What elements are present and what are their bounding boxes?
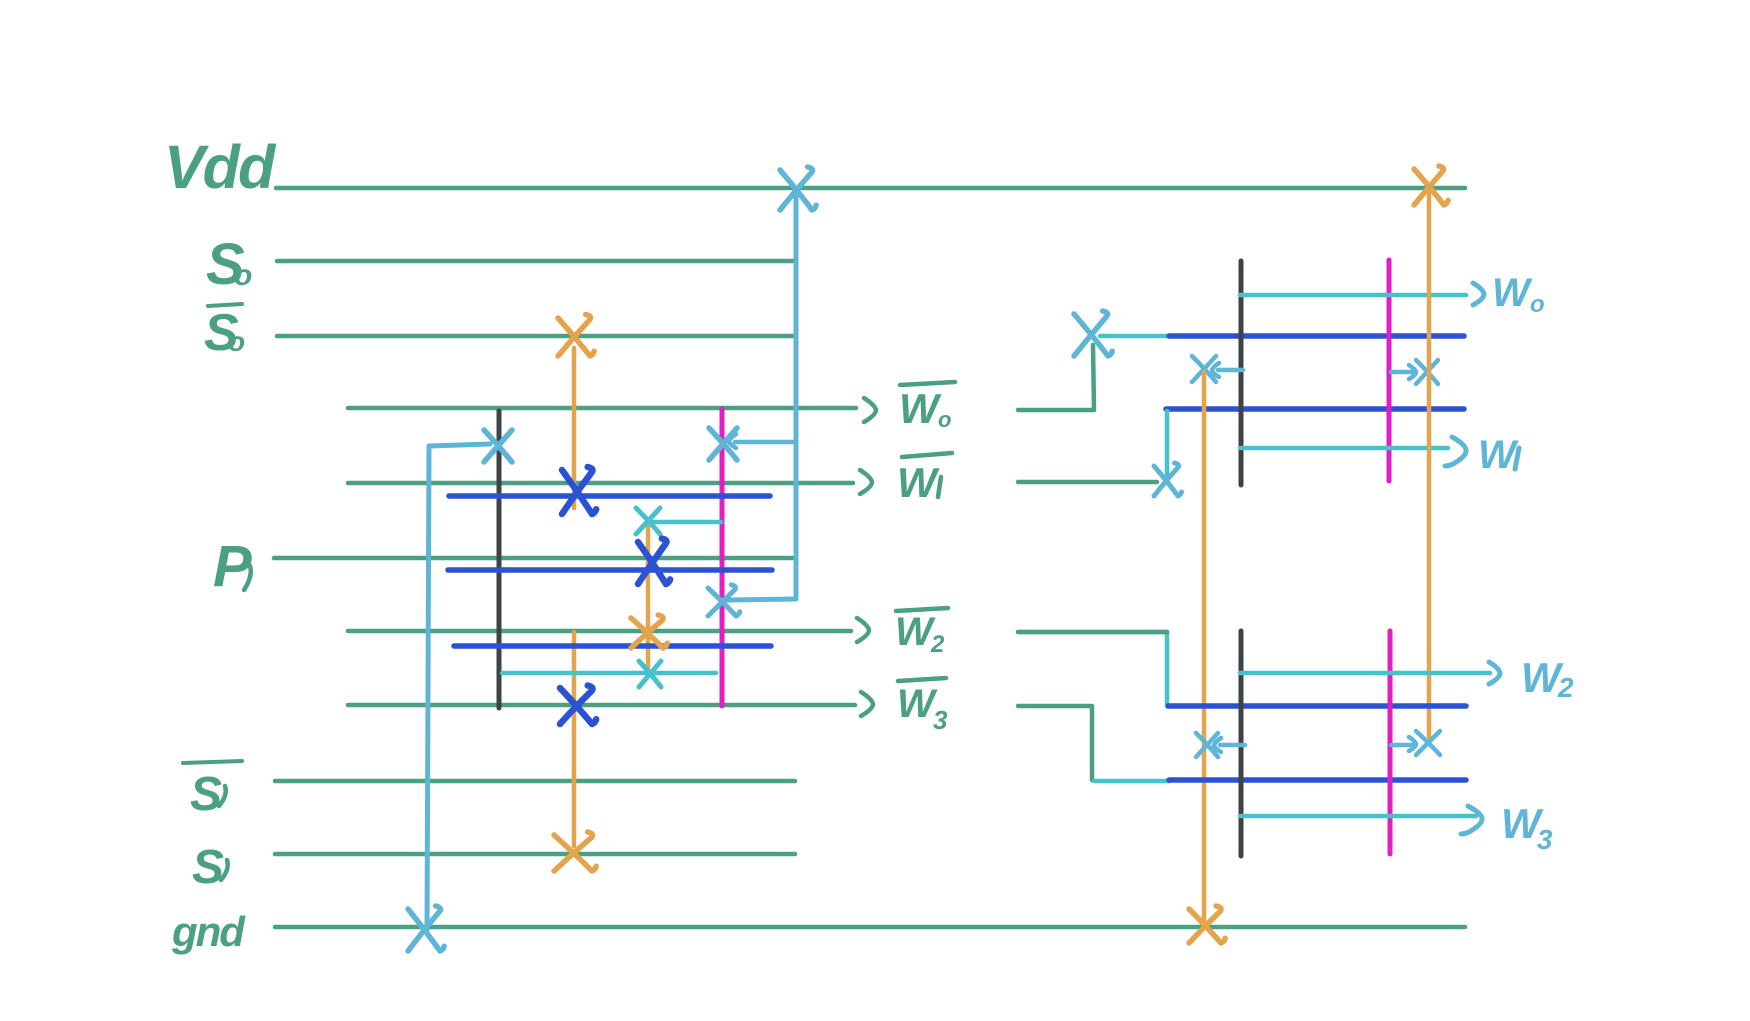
node X orange Vdd xyxy=(1414,166,1448,205)
svg-text:3: 3 xyxy=(933,705,948,735)
wire W0 out xyxy=(1240,293,1466,298)
label P1 sub xyxy=(244,566,251,590)
svg-text:W: W xyxy=(897,682,938,726)
arrowhead W2bar out xyxy=(857,618,869,642)
svg-text:W: W xyxy=(1492,271,1533,315)
wire orange column mid xyxy=(646,527,651,671)
svg-text:gnd: gnd xyxy=(171,908,246,955)
arrowhead W2 out xyxy=(1489,662,1500,684)
svg-text:2: 2 xyxy=(1557,672,1574,703)
overline S1bar xyxy=(183,761,242,763)
arrowhead to orange top xyxy=(1212,363,1219,377)
node X orange right top xyxy=(1416,360,1438,384)
svg-text:Vdd: Vdd xyxy=(164,133,277,201)
node X teal mid top xyxy=(636,508,660,534)
wire teal stub upper xyxy=(652,520,721,525)
node X gate feed xyxy=(484,430,512,462)
wire S0bar line xyxy=(277,334,794,339)
svg-text:o: o xyxy=(228,326,245,357)
wire W1bar feed right xyxy=(1018,480,1157,485)
wire arrow magenta to orange bottom xyxy=(1391,743,1412,748)
overline W1bar xyxy=(902,453,952,457)
wire teal link row8 xyxy=(1094,779,1170,784)
svg-text:o: o xyxy=(234,259,252,292)
node X W1bar tap xyxy=(1154,463,1182,496)
transistor X S0bar orange xyxy=(558,315,594,357)
wire W2bar row xyxy=(348,629,851,634)
overline W3bar xyxy=(898,678,946,681)
wire W2 out xyxy=(1240,671,1490,676)
wire sky Vdd drop xyxy=(726,196,796,600)
arrowhead W3bar out xyxy=(861,692,873,716)
wire blue row8 xyxy=(1169,777,1466,783)
label W1bar sub xyxy=(938,477,941,497)
node X W0bar tap xyxy=(1074,311,1112,356)
wire W0bar feed right xyxy=(1018,345,1094,410)
arrowhead magenta tap xyxy=(729,434,736,448)
transistor X W3bar blue xyxy=(560,686,596,725)
wire S1bar line xyxy=(275,779,795,784)
wire W2bar feed green xyxy=(1018,630,1167,635)
transistor X S1 orange xyxy=(554,832,596,871)
wire orange pull-up upper xyxy=(572,348,577,508)
label W1 out sub xyxy=(1515,448,1519,469)
node X orange gnd xyxy=(1189,906,1225,943)
wire black column right top xyxy=(1239,261,1244,485)
arrowhead W1bar out xyxy=(860,470,872,494)
wire Vdd rail xyxy=(276,186,1465,191)
svg-text:o: o xyxy=(1530,291,1545,318)
wire W2bar feed right xyxy=(1018,632,1167,704)
transistor X W2bar orange xyxy=(631,615,667,648)
wire magenta column right top xyxy=(1387,260,1392,481)
wire blue row7 xyxy=(1168,703,1466,709)
overline W2bar xyxy=(896,608,948,611)
wire teal riser W1bar xyxy=(1165,411,1170,477)
overline S0bar xyxy=(208,304,242,306)
wire blue row1 xyxy=(449,493,770,499)
wire teal stub lower xyxy=(502,671,716,676)
wire sky magenta tap xyxy=(735,440,794,445)
wire blue row3 xyxy=(454,643,771,649)
wire W3 out xyxy=(1240,814,1476,819)
wire orange column outer xyxy=(1427,192,1432,737)
wire W3bar row xyxy=(348,703,855,708)
arrowhead W0bar out xyxy=(864,398,876,422)
wire blue row2 xyxy=(448,567,772,573)
wire W1 out xyxy=(1240,446,1448,451)
transistor X P1 blue xyxy=(638,539,670,584)
svg-text:o: o xyxy=(938,407,951,432)
wire arrow black to orange top xyxy=(1218,368,1243,373)
svg-text:W: W xyxy=(1478,433,1519,477)
node X magenta lower xyxy=(708,585,740,616)
overline W0bar xyxy=(900,382,955,385)
svg-text:3: 3 xyxy=(1537,824,1553,855)
arrowhead to orange right bottom xyxy=(1409,737,1416,751)
wire S0 line xyxy=(277,259,794,264)
wire gnd rail xyxy=(275,925,1465,930)
wire W0bar row xyxy=(348,406,856,411)
svg-text:W: W xyxy=(895,610,936,654)
node X Vdd tap xyxy=(780,167,816,210)
wire orange pull-up lower xyxy=(572,632,577,846)
node X orange left top xyxy=(1192,356,1216,382)
wire S1 line xyxy=(275,852,795,857)
wire blue row5 xyxy=(1169,333,1464,339)
label S1 sub xyxy=(221,860,228,880)
wire W1bar row xyxy=(348,481,853,486)
svg-text:S: S xyxy=(192,841,224,894)
wire W3bar feed right xyxy=(1018,706,1092,780)
node X magenta upper xyxy=(709,428,737,460)
svg-text:W: W xyxy=(897,459,940,506)
label S1bar sub xyxy=(219,786,226,806)
arrowhead W1 out xyxy=(1445,437,1466,466)
wire arrow magenta to orange top xyxy=(1391,370,1412,375)
wire black column right bottom xyxy=(1239,631,1244,856)
wire P1 line xyxy=(274,556,794,561)
arrowhead W0 out xyxy=(1473,283,1484,305)
svg-text:2: 2 xyxy=(930,631,945,658)
wire sky gate feed xyxy=(427,444,490,930)
wire magenta column right bottom xyxy=(1388,631,1393,854)
node x teal mid bottom xyxy=(639,661,661,687)
node X orange right bottom xyxy=(1416,731,1440,755)
arrowhead to orange bottom xyxy=(1214,738,1221,752)
node X gnd tap xyxy=(408,906,444,951)
wire magenta column left xyxy=(720,409,725,706)
transistor X W1bar blue xyxy=(562,467,596,514)
wire orange column inner xyxy=(1202,372,1207,924)
svg-text:S: S xyxy=(190,768,222,821)
svg-text:W: W xyxy=(899,385,942,432)
wire black column left xyxy=(497,411,502,708)
wire teal link row1 xyxy=(1100,334,1170,339)
node X orange left bottom xyxy=(1196,733,1218,757)
arrowhead W3 out xyxy=(1461,806,1482,834)
wire arrow black to orange bottom xyxy=(1220,743,1245,748)
wire blue row6 xyxy=(1166,406,1464,412)
arrowhead to orange right top xyxy=(1409,365,1416,379)
